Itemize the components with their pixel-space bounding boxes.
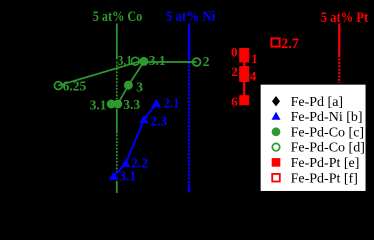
- green filled circle 3.1 (pair left): [107, 100, 116, 109]
- legend marker diamond Fe-Pd [a]: [272, 96, 280, 106]
- svg-text:2.3: 2.3: [150, 113, 167, 128]
- green filled circle 3: [124, 81, 133, 90]
- svg-text:Fe-Pd-Co [d]: Fe-Pd-Co [d]: [291, 141, 365, 156]
- svg-text:4: 4: [250, 68, 257, 83]
- green filled circle 3.1 (cluster right): [139, 57, 148, 66]
- svg-text:3.3: 3.3: [123, 97, 140, 112]
- red wire connecting squares: [243, 53, 245, 100]
- green open circle 6.25: [54, 82, 62, 90]
- blue triangle 2.3: [139, 115, 149, 123]
- legend marker open circle Fe-Pd-Co [d]: [272, 143, 279, 150]
- svg-text:5 at% Co: 5 at% Co: [93, 9, 143, 25]
- blue vertical line solid top segment (5 at% Ni): [188, 24, 190, 61]
- red filled square 1: [239, 53, 249, 63]
- svg-text:2: 2: [231, 64, 238, 79]
- green vertical line solid top segment (5 at% Co): [116, 24, 118, 60]
- svg-text:5 at% Pt: 5 at% Pt: [321, 10, 369, 26]
- svg-text:3.1: 3.1: [149, 53, 166, 68]
- red vertical line dotted segment (5 at% Pt): [338, 59, 340, 85]
- legend marker open square Fe-Pd-Pt [f]: [272, 174, 280, 182]
- blue wire 2.3 to 2.1: [144, 104, 156, 120]
- svg-text:3: 3: [136, 80, 143, 95]
- red vertical line solid top segment (5 at% Pt): [338, 24, 340, 58]
- legend marker filled square Fe-Pd-Pt [e]: [272, 158, 281, 167]
- svg-text:Fe-Pd-Ni [b]: Fe-Pd-Ni [b]: [291, 110, 363, 125]
- green filled circle 3.3 (pair right): [113, 100, 122, 109]
- legend marker filled circle Fe-Pd-Co [c]: [272, 127, 281, 136]
- blue triangle 3.1: [109, 172, 119, 180]
- green open circle 3.1 (cluster left): [131, 57, 139, 65]
- svg-text:6.25: 6.25: [63, 78, 87, 93]
- svg-text:1: 1: [251, 51, 258, 66]
- green wire 6.25-circle to cluster: [58, 62, 139, 86]
- svg-text:3.1: 3.1: [119, 169, 136, 184]
- svg-text:2.7: 2.7: [281, 36, 299, 52]
- svg-text:3.1: 3.1: [118, 53, 132, 68]
- svg-text:Fe-Pd-Co [c]: Fe-Pd-Co [c]: [291, 125, 365, 140]
- legend marker triangle Fe-Pd-Ni [b]: [272, 112, 281, 120]
- green open circle 2: [193, 58, 201, 66]
- green wire 3-circle to 3.1/3.3 pair: [118, 85, 129, 104]
- blue vertical line solid bottom segment: [188, 185, 190, 193]
- svg-text:3.1: 3.1: [90, 98, 107, 113]
- red filled square 4: [239, 72, 249, 82]
- svg-text:5 at% Ni: 5 at% Ni: [166, 9, 216, 25]
- green wire cluster to 3-circle: [128, 62, 144, 86]
- red open square 2.7: [271, 38, 279, 46]
- green vertical line solid segment below pair: [116, 109, 118, 134]
- svg-text:Fe-Pd-Pt [f]: Fe-Pd-Pt [f]: [291, 171, 358, 186]
- svg-text:Fe-Pd-Pt [e]: Fe-Pd-Pt [e]: [291, 156, 360, 171]
- blue triangle 2.1: [151, 99, 161, 107]
- svg-text:2.1: 2.1: [164, 96, 180, 111]
- red filled square 0: [239, 48, 249, 58]
- green wire cluster to 2-circle: [144, 61, 197, 63]
- green vertical line dotted segment lower: [116, 135, 118, 172]
- green vertical line solid bottom segment: [116, 181, 118, 193]
- svg-text:0: 0: [231, 45, 238, 60]
- red filled square 6: [239, 95, 249, 105]
- svg-text:6: 6: [231, 94, 238, 109]
- blue wire 3.1 to 2.2: [114, 163, 126, 176]
- svg-text:2: 2: [203, 54, 210, 69]
- legend box: [260, 84, 367, 192]
- red filled square 2: [239, 66, 249, 76]
- blue wire 2.2 to 2.3: [126, 120, 144, 164]
- green vertical line dotted segment upper: [116, 62, 118, 100]
- svg-text:Fe-Pd [a]: Fe-Pd [a]: [291, 95, 344, 110]
- blue vertical line dashed segment (5 at% Ni): [188, 62, 190, 185]
- blue triangle 2.2: [121, 159, 131, 167]
